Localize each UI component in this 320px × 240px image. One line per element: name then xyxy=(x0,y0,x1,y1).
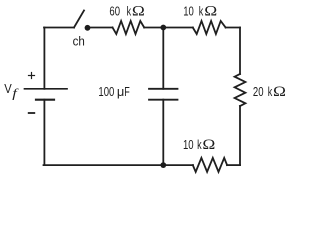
svg-text:V: V xyxy=(4,81,11,96)
wire R1 to node A xyxy=(144,27,163,29)
wire switch contact to resistor R1 xyxy=(88,27,113,29)
wire bottom node B to resistor R4 xyxy=(163,164,193,166)
resistor R1 60 kOhm zigzag xyxy=(113,21,145,34)
svg-text:k: k xyxy=(268,85,273,99)
node A junction dot (top) xyxy=(160,25,166,31)
label 20 kOhm (R3 value) xyxy=(253,84,286,99)
minus sign of battery Vf xyxy=(29,112,35,114)
svg-text:k: k xyxy=(127,5,132,19)
svg-text:Ω: Ω xyxy=(202,137,215,152)
wire capacitor branch lower xyxy=(162,100,164,165)
svg-text:100: 100 xyxy=(98,86,114,100)
svg-text:10: 10 xyxy=(183,5,194,19)
resistor R4 10 kOhm (bottom) zigzag xyxy=(193,158,227,172)
svg-text:Ω: Ω xyxy=(204,4,217,19)
wire capacitor branch upper xyxy=(162,28,164,89)
battery Vf long plate (+) xyxy=(25,88,68,90)
label 10 kOhm (R4 value) xyxy=(183,137,216,152)
label 60 kOhm (R1 value) xyxy=(109,4,145,19)
svg-text:k: k xyxy=(199,5,204,19)
svg-text:60: 60 xyxy=(109,5,120,19)
wire right branch upper xyxy=(239,28,241,75)
svg-text:Ω: Ω xyxy=(273,84,286,99)
svg-text:μ: μ xyxy=(117,84,124,99)
wire R2 to top-right corner xyxy=(226,27,240,29)
wire top-left horizontal segment xyxy=(44,27,74,29)
label 100 uF (C1 value) xyxy=(98,84,129,99)
battery Vf short plate (-) xyxy=(36,99,54,101)
svg-text:Ω: Ω xyxy=(132,4,145,19)
wire right branch lower xyxy=(239,106,241,165)
svg-text:F: F xyxy=(124,85,130,99)
switch contact dot xyxy=(85,25,91,31)
svg-text:k: k xyxy=(197,138,202,152)
wire left branch upper (battery + terminal riser) xyxy=(43,28,45,89)
capacitor C1 100 uF bottom plate xyxy=(149,99,178,101)
node B junction dot (bottom) xyxy=(160,162,166,168)
resistor R2 10 kOhm (top) zigzag xyxy=(193,21,226,34)
wire bottom-left segment xyxy=(44,164,164,166)
resistor R3 20 kOhm (right, vertical) zigzag xyxy=(235,74,246,106)
svg-text:20: 20 xyxy=(253,86,264,100)
svg-text:10: 10 xyxy=(183,139,194,153)
wire node A to resistor R2 xyxy=(163,27,193,29)
label 10 kOhm (R2 value) xyxy=(183,4,217,19)
wire bottom-right segment xyxy=(227,164,240,166)
wire left branch lower xyxy=(43,100,45,165)
capacitor C1 100 uF top plate xyxy=(149,88,178,90)
svg-text:f: f xyxy=(12,87,19,101)
label Vf (source name) xyxy=(4,81,19,101)
switch ch (open blade) xyxy=(74,11,84,28)
svg-text:ch: ch xyxy=(73,34,85,49)
plus sign of battery Vf xyxy=(29,75,35,77)
